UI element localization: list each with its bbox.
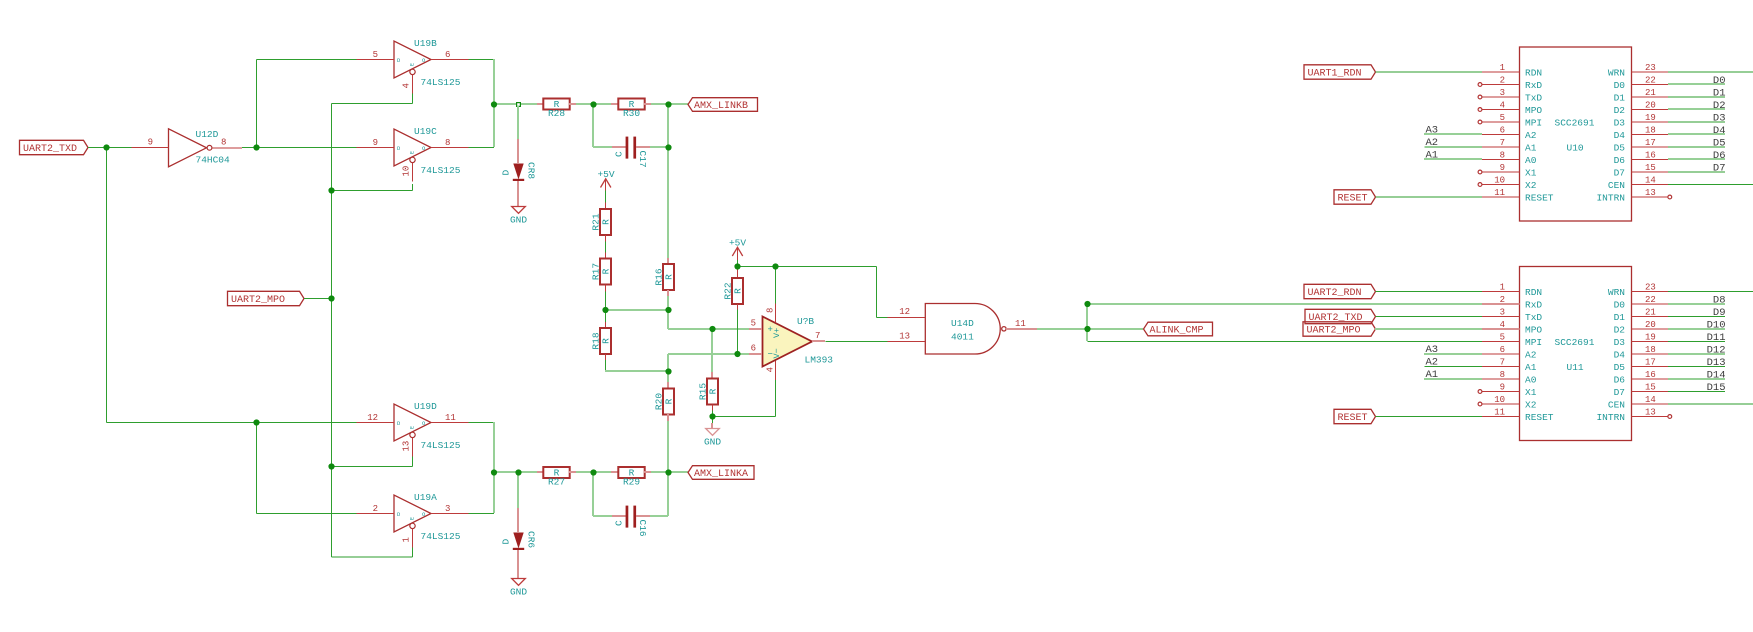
- wire pin5 net drop: [667, 310, 669, 329]
- R30 left pin: [611, 103, 618, 105]
- svg-text:74LS125: 74LS125: [421, 165, 461, 176]
- junction UART2_TXD column A: [103, 144, 109, 150]
- svg-text:X2: X2: [1525, 400, 1537, 411]
- wire opamp output to NAND pin13: [826, 341, 888, 343]
- resistor R30: [618, 99, 644, 119]
- U10 pin 11 stub: [1482, 196, 1520, 198]
- svg-text:D6: D6: [1713, 150, 1726, 162]
- wire node down to R20: [667, 371, 669, 382]
- wire to U19B input: [257, 59, 357, 61]
- net D10 wire: [1668, 328, 1725, 330]
- svg-text:D10: D10: [1707, 320, 1726, 332]
- svg-text:MPO: MPO: [1525, 105, 1542, 116]
- svg-text:19: 19: [1645, 332, 1656, 342]
- U11 pin 1 stub: [1482, 291, 1520, 293]
- wire divider node across: [605, 309, 668, 311]
- R17 top pin: [605, 252, 607, 258]
- R16 top pin: [667, 258, 669, 264]
- wire long drop to R16: [667, 147, 669, 258]
- resistor R15: [697, 379, 718, 405]
- U19D input pin stub: [357, 422, 395, 424]
- ground symbol GND below R15: [704, 429, 721, 448]
- U19A enable pin stub: [412, 529, 414, 548]
- net D2 wire: [1668, 108, 1725, 110]
- inverter U12D 74HC04: [148, 129, 230, 167]
- U11 pin 3 stub: [1482, 316, 1520, 318]
- svg-text:C17: C17: [637, 151, 648, 168]
- svg-text:D0: D0: [1614, 300, 1626, 311]
- svg-text:D2: D2: [1713, 100, 1726, 112]
- wire R27 node drop to C16: [592, 472, 594, 516]
- U11 pin 21 stub: [1632, 316, 1669, 318]
- svg-text:SCC2691: SCC2691: [1555, 337, 1595, 348]
- svg-text:RxD: RxD: [1525, 300, 1542, 311]
- U10 pin 5 stub: [1482, 121, 1520, 123]
- U10 pin 2 unconnected circle: [1478, 83, 1482, 87]
- svg-text:18: 18: [1645, 345, 1656, 355]
- NAND pin 11 output stub: [1006, 328, 1037, 330]
- CR8 cathode pin: [517, 181, 519, 206]
- resistor R27: [543, 467, 569, 487]
- svg-text:D6: D6: [1614, 155, 1626, 166]
- svg-text:2: 2: [1500, 295, 1505, 305]
- svg-text:8: 8: [766, 308, 776, 313]
- U10 pin 14 wire to edge: [1668, 184, 1753, 186]
- svg-text:WRN: WRN: [1608, 287, 1625, 298]
- wire enable rail to U19A enable: [332, 556, 413, 558]
- U10 pin 8 stub: [1482, 159, 1520, 161]
- svg-text:RxD: RxD: [1525, 80, 1542, 91]
- net D13 wire: [1668, 366, 1725, 368]
- wire U19A output: [469, 513, 495, 515]
- net D12 wire: [1668, 353, 1725, 355]
- U11 pin 6 stub: [1482, 353, 1520, 355]
- svg-text:14: 14: [1645, 395, 1656, 405]
- wire R16 to node: [667, 296, 669, 310]
- opamp pin 7 stub: [812, 340, 825, 342]
- CR8 anode pin: [517, 139, 519, 163]
- opamp pin 8 stub: [775, 304, 777, 323]
- U12D input pin 9 stub: [132, 147, 169, 149]
- svg-text:AMX_LINKA: AMX_LINKA: [694, 469, 748, 480]
- wire U19C output rise: [493, 104, 495, 147]
- net label RESET 2: [1334, 409, 1376, 423]
- wire +5V node across: [738, 266, 877, 268]
- junction R17-R18 node: [602, 307, 608, 313]
- svg-text:11: 11: [1015, 319, 1026, 329]
- wire U19C output: [469, 147, 495, 149]
- svg-text:D5: D5: [1614, 143, 1626, 154]
- svg-text:D: D: [397, 420, 401, 427]
- svg-text:10: 10: [1494, 395, 1505, 405]
- wire to AMX_LINKA label: [668, 471, 688, 473]
- wire ground node to opamp pin4: [713, 416, 776, 418]
- junction enable rail at UART2_MPO: [328, 295, 334, 301]
- svg-text:UART1_RDN: UART1_RDN: [1308, 69, 1362, 80]
- wire node to R28: [494, 103, 537, 105]
- U10 pin 1 stub: [1482, 71, 1520, 73]
- svg-text:2: 2: [373, 504, 378, 514]
- svg-text:UART2_TXD: UART2_TXD: [23, 144, 77, 155]
- svg-text:A2: A2: [1525, 350, 1537, 361]
- wire ground node to GND pin: [712, 417, 714, 424]
- power symbol +5V above R21: [597, 169, 614, 191]
- svg-text:TxD: TxD: [1525, 312, 1542, 323]
- wire C16 node rise: [667, 472, 669, 516]
- svg-text:D: D: [501, 170, 512, 176]
- svg-text:D12: D12: [1707, 345, 1726, 357]
- resistor R29: [618, 467, 644, 487]
- svg-text:RDN: RDN: [1525, 68, 1542, 79]
- svg-text:UART2_MPO: UART2_MPO: [1307, 326, 1361, 337]
- junction +5V node at R22: [734, 263, 740, 269]
- U11 pin 20 stub: [1632, 328, 1669, 330]
- svg-text:11: 11: [445, 413, 456, 423]
- wire U19B output: [469, 59, 495, 61]
- svg-text:D13: D13: [1707, 357, 1726, 369]
- svg-text:LM393: LM393: [805, 355, 834, 366]
- R20 bottom pin: [667, 414, 669, 421]
- svg-text:13: 13: [1645, 188, 1656, 198]
- wire enable rail to U19B enable: [332, 103, 413, 105]
- wire U19C enable drop: [412, 184, 414, 191]
- wire CR8 tap down: [517, 106, 519, 139]
- wire to C17 left plate: [593, 146, 612, 148]
- svg-text:12: 12: [899, 307, 910, 317]
- buffer U19A 74LS125: [373, 492, 461, 542]
- U19B output pin stub: [431, 59, 469, 61]
- U11 pin 8 stub: [1482, 378, 1520, 380]
- svg-text:U14D: U14D: [951, 318, 974, 329]
- svg-text:13: 13: [402, 441, 412, 452]
- wire R29 to AMX_LINKA node: [651, 471, 668, 473]
- wire junction to R29: [593, 471, 611, 473]
- svg-text:INTRN: INTRN: [1596, 412, 1625, 423]
- junction CR6 tap: [515, 469, 521, 475]
- junction R28-R30 node: [590, 101, 596, 107]
- NAND pin 13 stub: [888, 341, 926, 343]
- junction inverter output node: [253, 144, 259, 150]
- svg-text:D7: D7: [1713, 163, 1726, 175]
- U10 pin 4 stub: [1482, 109, 1520, 111]
- U11 pin 10 unconnected circle: [1478, 402, 1482, 406]
- svg-text:INTRN: INTRN: [1596, 193, 1625, 204]
- svg-text:GND: GND: [510, 215, 527, 226]
- U11 pin 23 stub: [1632, 291, 1669, 293]
- svg-text:R16: R16: [653, 268, 664, 285]
- svg-text:D1: D1: [1713, 88, 1726, 100]
- diode CR8: [501, 162, 537, 180]
- wire R18 bottom across: [605, 370, 668, 372]
- R27 left pin: [537, 471, 543, 473]
- svg-text:4: 4: [766, 367, 776, 372]
- net label AMX_LINKB: [688, 98, 758, 112]
- net D1 wire: [1668, 96, 1725, 98]
- wire UART2_TXD to U19A input: [257, 513, 357, 515]
- svg-text:R: R: [601, 338, 612, 344]
- svg-text:D0: D0: [1614, 80, 1626, 91]
- wire UART1_RDN to U10 pin1: [1376, 71, 1483, 73]
- svg-text:5: 5: [1500, 332, 1505, 342]
- IC U10 SCC2691 box: [1520, 47, 1632, 221]
- junction R15 ground node: [709, 413, 715, 419]
- wire R15 column: [711, 329, 713, 372]
- junction C17 right node: [665, 144, 671, 150]
- svg-text:E: E: [410, 151, 416, 154]
- op-amp U?B LM393: [751, 308, 834, 373]
- svg-text:9: 9: [148, 138, 153, 148]
- svg-text:9: 9: [1500, 163, 1505, 173]
- ground symbol GND below CR6: [510, 579, 527, 598]
- svg-text:A3: A3: [1426, 344, 1439, 356]
- buffer U19B 74LS125: [373, 38, 461, 88]
- svg-text:D14: D14: [1707, 370, 1726, 382]
- svg-text:15: 15: [1645, 163, 1656, 173]
- wire inverter output node to U19C input: [257, 147, 357, 149]
- U11 pin names and values: [1525, 287, 1625, 423]
- capacitor C17: [614, 137, 649, 168]
- C16 left pin: [612, 515, 626, 517]
- svg-text:UART2_MPO: UART2_MPO: [231, 295, 285, 306]
- wire U19D enable drop: [412, 457, 414, 467]
- U10 pin 13 unconnected circle: [1668, 195, 1672, 199]
- U10 pin 15 stub: [1632, 171, 1669, 173]
- wire to AMX_LINKB label: [668, 103, 688, 105]
- wire U12D output to junction: [242, 147, 257, 149]
- net label UART2_TXD right: [1305, 309, 1376, 323]
- U19B input pin stub: [357, 59, 395, 61]
- svg-text:D9: D9: [1713, 307, 1726, 319]
- U10 pin 4 unconnected circle: [1478, 108, 1482, 112]
- junction R27-R29 node: [590, 469, 596, 475]
- svg-text:8: 8: [1500, 150, 1505, 160]
- svg-text:6: 6: [1500, 125, 1505, 135]
- svg-text:3: 3: [1500, 88, 1505, 98]
- junction R18-R20 node: [665, 368, 671, 374]
- svg-text:7: 7: [1500, 357, 1505, 367]
- U11 pin 14 wire to edge: [1668, 403, 1753, 405]
- svg-text:8: 8: [445, 138, 450, 148]
- wire R22 to pin6 net: [737, 310, 739, 355]
- wire R28 node drop to C17: [592, 104, 594, 147]
- U11 pin 18 stub: [1632, 353, 1669, 355]
- svg-text:E: E: [410, 63, 416, 66]
- junction AMX_LINKA node: [665, 469, 671, 475]
- R29 right pin: [644, 471, 651, 473]
- svg-text:21: 21: [1645, 307, 1656, 317]
- svg-text:R17: R17: [590, 263, 601, 280]
- net D8 wire: [1668, 303, 1725, 305]
- buffer U19D 74LS125: [367, 401, 461, 451]
- svg-text:7: 7: [815, 331, 820, 341]
- wire to NAND pin12: [877, 317, 888, 319]
- wire enable rail to U19C enable: [332, 190, 413, 192]
- U10 pin 2 stub: [1482, 84, 1520, 86]
- svg-text:13: 13: [1645, 407, 1656, 417]
- wire UART2_RDN to U11 pin1: [1376, 291, 1483, 293]
- net D6 wire: [1668, 158, 1725, 160]
- svg-text:R27: R27: [548, 476, 565, 487]
- svg-text:D11: D11: [1707, 332, 1726, 344]
- svg-text:V+: V+: [772, 328, 782, 338]
- net label UART2_MPO: [228, 291, 305, 305]
- svg-text:RESET: RESET: [1525, 412, 1554, 423]
- U10 pin 6 stub: [1482, 134, 1520, 136]
- svg-text:4: 4: [1500, 100, 1505, 110]
- svg-text:A0: A0: [1525, 375, 1537, 386]
- R16 bottom pin: [667, 290, 669, 296]
- net D4 wire: [1668, 133, 1725, 135]
- net D5 wire: [1668, 146, 1725, 148]
- svg-text:D15: D15: [1707, 382, 1726, 394]
- opamp pin 6 stub: [749, 353, 762, 355]
- svg-text:TxD: TxD: [1525, 93, 1542, 104]
- svg-text:D8: D8: [1713, 295, 1726, 307]
- svg-text:MPI: MPI: [1525, 337, 1542, 348]
- svg-text:D5: D5: [1614, 362, 1626, 373]
- svg-text:74LS125: 74LS125: [421, 531, 461, 542]
- svg-text:R: R: [733, 288, 744, 294]
- U10 pin 18 stub: [1632, 134, 1669, 136]
- wire node down to R18: [605, 310, 607, 322]
- svg-text:D: D: [397, 145, 401, 152]
- U10 pin 16 stub: [1632, 159, 1669, 161]
- CR6 anode pin: [517, 508, 519, 532]
- C16 right pin: [636, 515, 650, 517]
- wire R21 to R17: [605, 241, 607, 252]
- svg-text:74LS125: 74LS125: [421, 77, 461, 88]
- U11 pin 4 stub: [1482, 328, 1520, 330]
- C17 right pin: [636, 146, 650, 148]
- net D15 wire: [1668, 391, 1725, 393]
- net D7 wire: [1668, 171, 1725, 173]
- U12D output pin 8 stub: [212, 147, 242, 149]
- svg-text:17: 17: [1645, 357, 1656, 367]
- U10 pin 9 unconnected circle: [1478, 170, 1482, 174]
- svg-text:V−: V−: [772, 348, 782, 358]
- wire to C16 left plate: [593, 515, 612, 517]
- junction R15 tap on pin5 net: [709, 326, 715, 332]
- U11 pin 14 stub: [1632, 403, 1669, 405]
- U10 pin 9 stub: [1482, 171, 1520, 173]
- U11 pin 15 stub: [1632, 391, 1669, 393]
- net A1 wire to U10: [1424, 158, 1482, 160]
- U11 pin 10 stub: [1482, 403, 1520, 405]
- wire +5V to opamp pin8: [775, 267, 777, 304]
- U11 pin 9 stub: [1482, 391, 1520, 393]
- svg-text:9: 9: [373, 138, 378, 148]
- svg-text:19: 19: [1645, 113, 1656, 123]
- wire C16 to right node: [650, 515, 668, 517]
- junction R16 bottom node: [665, 307, 671, 313]
- wire ALINK to U11 RxD: [1087, 303, 1482, 305]
- junction ALINK_CMP node: [1084, 326, 1090, 332]
- wire UART2_TXD label to inverter input: [88, 147, 132, 149]
- wire node to R27: [494, 471, 537, 473]
- svg-text:GND: GND: [510, 587, 527, 598]
- wire junction to R30: [593, 103, 611, 105]
- svg-text:A3: A3: [1426, 125, 1439, 137]
- svg-text:R21: R21: [590, 213, 601, 230]
- wire U19A output rise: [493, 472, 495, 513]
- svg-text:D1: D1: [1614, 312, 1626, 323]
- wire UART2_TXD to U11 pin3: [1376, 316, 1483, 318]
- wire +5V net drop to NAND pin12: [876, 267, 878, 318]
- svg-text:C: C: [614, 151, 625, 157]
- wire-end square node at CR8 tap: [517, 103, 521, 107]
- svg-text:RESET: RESET: [1338, 194, 1368, 205]
- R15 bottom pin: [712, 405, 714, 411]
- svg-text:13: 13: [899, 332, 910, 342]
- net A3 wire to U11: [1424, 353, 1482, 355]
- wire NAND output: [1037, 328, 1087, 330]
- svg-text:RESET: RESET: [1525, 193, 1554, 204]
- svg-text:74HC04: 74HC04: [196, 155, 231, 166]
- junction R22 bottom on pin6 net: [734, 351, 740, 357]
- wire AMX_LINKB node drop: [667, 104, 669, 147]
- R21 top pin: [605, 203, 607, 209]
- U10 pin 10 stub: [1482, 184, 1520, 186]
- U10 pin 17 stub: [1632, 146, 1669, 148]
- svg-text:A2: A2: [1525, 130, 1537, 141]
- U10 pin names and values: [1525, 68, 1625, 204]
- NAND pin 12 stub: [888, 317, 926, 319]
- svg-text:U10: U10: [1567, 143, 1584, 154]
- svg-text:X1: X1: [1525, 387, 1537, 398]
- net label ALINK_CMP: [1144, 322, 1213, 336]
- R18 bottom pin: [605, 354, 607, 360]
- wire node to opamp pin5: [668, 328, 749, 330]
- U10 pin 21 stub: [1632, 96, 1669, 98]
- wire U19D output drop: [493, 422, 495, 472]
- svg-text:C: C: [614, 520, 625, 526]
- svg-text:15: 15: [1645, 382, 1656, 392]
- junction AMX_LINKB node: [665, 101, 671, 107]
- wire U19D output: [469, 422, 495, 424]
- svg-text:U19C: U19C: [414, 126, 437, 137]
- svg-text:D7: D7: [1614, 168, 1625, 179]
- R17 bottom pin: [605, 285, 607, 292]
- wire opamp pin6 row: [668, 353, 749, 355]
- svg-text:A1: A1: [1525, 362, 1537, 373]
- svg-text:R: R: [664, 274, 675, 280]
- svg-text:D: D: [397, 57, 401, 64]
- R18 top pin: [605, 322, 607, 328]
- svg-text:R: R: [708, 388, 719, 394]
- U19C enable pin stub: [412, 163, 414, 182]
- capacitor C16: [614, 506, 649, 537]
- svg-text:U12D: U12D: [196, 129, 219, 140]
- svg-text:A1: A1: [1426, 150, 1439, 162]
- GND pin below R15: [711, 423, 713, 428]
- svg-text:D: D: [501, 539, 512, 545]
- U10 pin 10 unconnected circle: [1478, 183, 1482, 187]
- net label UART2_RDN: [1304, 284, 1376, 298]
- svg-text:22: 22: [1645, 75, 1656, 85]
- junction UART2_TXD at U19D row: [253, 419, 259, 425]
- svg-text:CR6: CR6: [526, 531, 537, 548]
- svg-text:7: 7: [1500, 138, 1505, 148]
- svg-text:A1: A1: [1426, 369, 1439, 381]
- svg-text:23: 23: [1645, 63, 1656, 73]
- U10 pin 3 unconnected circle: [1478, 95, 1482, 99]
- power symbol +5V above R22: [729, 238, 746, 261]
- R28 left pin: [537, 103, 543, 105]
- junction +5V node at opamp pin8: [772, 263, 778, 269]
- R27 right pin: [569, 471, 576, 473]
- svg-text:D5: D5: [1713, 138, 1726, 150]
- U11 pin 13 unconnected circle: [1668, 415, 1672, 419]
